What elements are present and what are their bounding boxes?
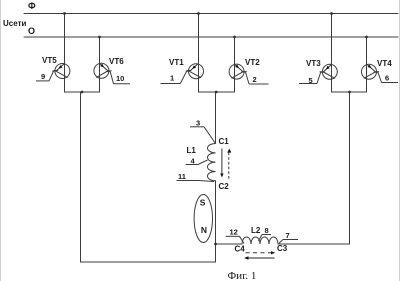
thyristor VT1 [169,58,204,79]
dashed arrow up [227,149,231,180]
wire VT3 anode drop [331,14,333,93]
svg-text:C3: C3 [277,244,288,253]
wire bracket VT3-VT4 [332,91,367,93]
wire VT2 anode drop [234,37,236,92]
wire bracket VT5-VT6 [65,91,100,93]
scan edge left [0,0,2,281]
wire middle drop upper [215,92,217,144]
wire VT4 anode drop [366,37,368,92]
wire VT6 anode drop [99,37,101,92]
svg-text:VT3: VT3 [306,59,321,68]
scan edge right [399,0,400,281]
wire neutral bus O [24,36,398,38]
node O-VT2 [233,36,236,39]
svg-text:VT4: VT4 [377,59,392,68]
svg-text:1: 1 [170,74,174,83]
gate lead pin 9 [36,71,58,82]
svg-text:8: 8 [265,226,269,235]
tap pin 7 [279,231,298,243]
wire phase bus F [24,13,398,15]
svg-text:11: 11 [178,172,186,181]
gate lead pin 5 [299,72,325,85]
svg-text:C1: C1 [219,137,230,146]
tap pin 11 [177,172,215,182]
thyristor VT6 [94,57,124,78]
svg-text:6: 6 [385,74,389,83]
tap pin 12 [226,228,244,244]
svg-text:L1: L1 [187,146,197,155]
wire bottom return [81,261,216,263]
svg-text:12: 12 [230,228,238,237]
svg-text:C2: C2 [219,182,230,191]
node O-VT6 [98,36,101,39]
gate lead pin 6 [374,72,399,82]
tap pin 4 [186,156,208,165]
svg-text:VT1: VT1 [169,58,184,67]
gate lead pin 1 [161,71,192,84]
node VT1-VT2 junction [215,91,218,94]
svg-text:VT6: VT6 [109,57,124,66]
svg-text:О: О [28,26,35,36]
svg-text:Uсети: Uсети [3,19,26,28]
svg-text:VT5: VT5 [42,56,57,65]
svg-text:9: 9 [41,72,45,81]
svg-text:Ф: Ф [28,1,36,11]
tap pin 3 [190,119,216,144]
svg-text:3: 3 [196,119,200,128]
wire left loop vertical [80,92,82,262]
svg-text:S: S [200,197,206,207]
arrow left [244,256,275,259]
svg-text:L2: L2 [251,226,261,235]
node VT5-VT6 junction [81,91,84,94]
svg-text:5: 5 [309,76,313,85]
node F-VT5 [63,12,66,15]
wire L2 left segment [216,243,243,245]
thyristor VT5 [42,56,70,79]
node O-VT4 [365,36,368,39]
svg-text:2: 2 [253,75,257,84]
node F-VT1 [197,12,200,15]
thyristor VT2 [229,58,260,79]
inductor L2 [242,237,278,244]
wire VT1 anode drop [198,14,200,93]
node F-VT3 [330,12,333,15]
wire VT5 anode drop [64,14,66,93]
wire bracket VT1-VT2 [199,91,235,93]
wire middle drop lower [215,181,217,262]
magnet rotor S/N [194,195,212,243]
gate lead pin 2 [241,72,268,84]
inductor L1 [207,144,215,181]
svg-text:10: 10 [116,74,124,83]
thyristor VT3 [306,59,337,79]
svg-text:N: N [201,225,207,235]
node VT3-VT4 junction [348,91,351,94]
svg-text:7: 7 [286,231,290,240]
node L2 tap junction [214,243,217,246]
dashed displacement arrow right [246,251,276,254]
thyristor VT4 [362,59,393,79]
gate lead pin 10 [106,72,130,84]
tap pin 8 [259,226,272,241]
svg-text:C4: C4 [235,245,246,254]
wire right drop [278,92,350,244]
flux arrow down [220,149,223,178]
svg-text:VT2: VT2 [245,58,260,67]
svg-text:Фиг. 1: Фиг. 1 [228,270,257,281]
